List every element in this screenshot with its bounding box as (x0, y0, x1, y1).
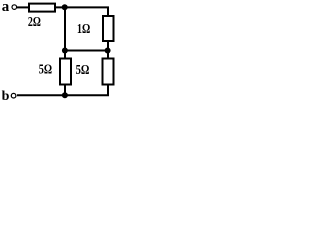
wire R2 bottom lead (107, 41, 109, 51)
svg-text:2Ω: 2Ω (28, 14, 41, 29)
wire R3 bottom lead (64, 85, 66, 96)
wire middle dot down to R3 (64, 51, 66, 59)
wire middle dot down to R4 (107, 51, 109, 59)
wire R4 bottom lead and bottom wire (17, 85, 108, 96)
junction dot top (62, 4, 68, 10)
wire middle horizontal (64, 50, 109, 52)
svg-text:b: b (2, 89, 10, 104)
resistor R1 2ohm box (29, 4, 55, 12)
svg-text:5Ω: 5Ω (39, 62, 52, 77)
wire terminal a to R1 (17, 6, 28, 8)
wire R1 to top-right corner and down to R2 (55, 7, 108, 15)
junction dot middle left (62, 48, 68, 54)
svg-text:5Ω: 5Ω (76, 63, 90, 78)
wire left rail top dot to middle dot (64, 7, 66, 50)
terminal b (11, 93, 16, 98)
svg-text:a: a (2, 0, 10, 15)
junction dot bottom (62, 92, 68, 98)
terminal a (12, 5, 17, 10)
resistor R2 1ohm box (103, 16, 114, 41)
resistor R3 5ohm left box (60, 59, 71, 85)
resistor R4 5ohm right box (103, 59, 114, 85)
svg-text:1Ω: 1Ω (77, 21, 90, 36)
junction dot middle right (105, 48, 111, 54)
